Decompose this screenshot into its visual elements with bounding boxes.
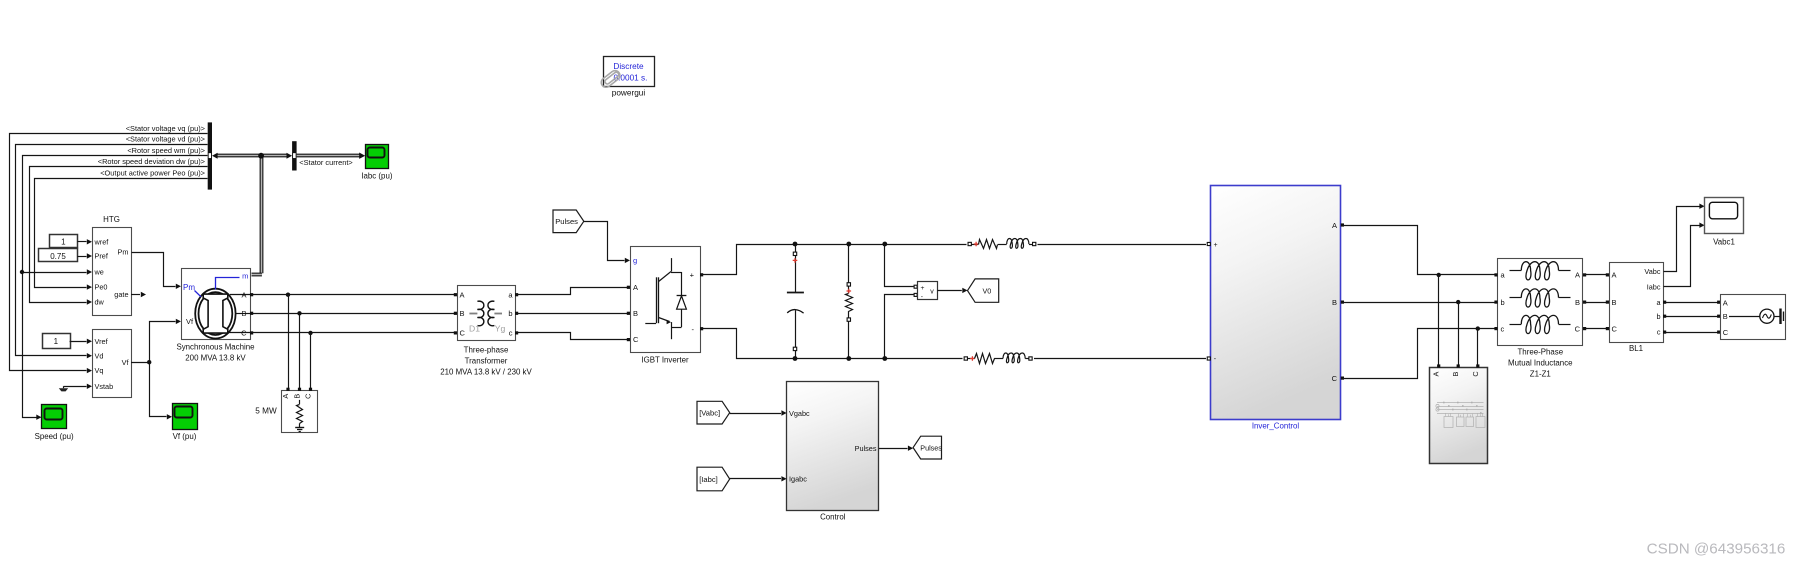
svg-text:Vq: Vq xyxy=(95,366,104,375)
svg-text:powergui: powergui xyxy=(612,89,646,98)
svg-text:<Rotor speed wm (pu)>: <Rotor speed wm (pu)> xyxy=(127,146,205,155)
svg-text:C: C xyxy=(1332,374,1338,383)
svg-text:[Iabc]: [Iabc] xyxy=(699,475,718,484)
svg-text:200 MVA 13.8 kV: 200 MVA 13.8 kV xyxy=(185,354,246,363)
svg-text:Pulses: Pulses xyxy=(555,217,578,226)
svg-text:b: b xyxy=(1656,312,1660,321)
svg-text:BL1: BL1 xyxy=(1629,344,1643,353)
svg-text:B: B xyxy=(1612,298,1617,307)
svg-text:Speed (pu): Speed (pu) xyxy=(35,432,74,441)
svg-text:wref: wref xyxy=(94,237,110,246)
svg-text:Mutual Inductance: Mutual Inductance xyxy=(1508,358,1573,367)
svg-text:c: c xyxy=(1657,328,1661,337)
svg-text:Inver_Control: Inver_Control xyxy=(1252,422,1300,431)
svg-text:Transformer: Transformer xyxy=(465,356,508,365)
svg-text:Vf (pu): Vf (pu) xyxy=(173,432,197,441)
svg-text:A: A xyxy=(241,290,246,299)
svg-text:g: g xyxy=(633,256,637,265)
svg-text:HTG: HTG xyxy=(103,215,120,224)
svg-text:210 MVA 13.8 kV / 230 kV: 210 MVA 13.8 kV / 230 kV xyxy=(440,367,532,376)
svg-text:Three-Phase: Three-Phase xyxy=(1517,347,1563,356)
svg-text:Pulses: Pulses xyxy=(855,444,877,453)
svg-text:Control: Control xyxy=(820,512,846,521)
svg-text:Vgabc: Vgabc xyxy=(789,409,810,418)
svg-text:+: + xyxy=(921,285,925,292)
svg-text:<Output active power Peo (pu: <Output active power Peo (pu)> xyxy=(100,169,205,178)
svg-text:Vf: Vf xyxy=(122,358,130,367)
svg-text:<Stator voltage vq (pu)>: <Stator voltage vq (pu)> xyxy=(126,124,205,133)
svg-text:B: B xyxy=(1451,371,1460,376)
svg-text:B: B xyxy=(1332,298,1337,307)
svg-text:0.75: 0.75 xyxy=(50,252,66,261)
svg-text:Vd: Vd xyxy=(95,351,104,360)
svg-text:D1: D1 xyxy=(469,324,480,334)
svg-text:Vstab: Vstab xyxy=(95,382,114,391)
svg-text:Igabc: Igabc xyxy=(789,474,807,483)
svg-text:Iabc: Iabc xyxy=(1647,282,1661,291)
svg-text:A: A xyxy=(633,283,638,292)
svg-text:b: b xyxy=(1501,298,1505,307)
svg-text:v: v xyxy=(930,289,934,296)
svg-text:CSDN @643956316: CSDN @643956316 xyxy=(1647,541,1786,558)
svg-text:C: C xyxy=(633,335,639,344)
svg-text:B: B xyxy=(293,394,302,399)
svg-text:Vf: Vf xyxy=(186,317,194,326)
svg-text:Vabc: Vabc xyxy=(1644,267,1660,276)
svg-text:Iabc (pu): Iabc (pu) xyxy=(361,171,393,180)
svg-text:C: C xyxy=(1471,371,1480,376)
svg-text:B: B xyxy=(1575,298,1580,307)
svg-text:Pm: Pm xyxy=(183,283,195,292)
svg-text:<Stator current>: <Stator current> xyxy=(299,158,352,167)
svg-text:C: C xyxy=(460,329,466,338)
svg-text:+: + xyxy=(690,270,695,279)
svg-text:1: 1 xyxy=(54,337,59,346)
svg-text:Vref: Vref xyxy=(95,337,109,346)
svg-text:C: C xyxy=(1612,324,1618,333)
svg-text:A: A xyxy=(1432,371,1441,376)
svg-text:B: B xyxy=(241,309,246,318)
svg-text:+: + xyxy=(1214,242,1218,249)
svg-text:Z1-Z1: Z1-Z1 xyxy=(1530,369,1551,378)
svg-text:C: C xyxy=(1575,324,1581,333)
svg-text:Synchronous Machine: Synchronous Machine xyxy=(176,343,255,352)
svg-text:C: C xyxy=(304,394,313,399)
svg-text:Pref: Pref xyxy=(95,252,109,261)
svg-text:-: - xyxy=(921,293,923,300)
svg-text:gate: gate xyxy=(114,290,128,299)
svg-text:C: C xyxy=(1723,328,1729,337)
svg-text:<Rotor speed deviation dw (pu: <Rotor speed deviation dw (pu)> xyxy=(98,157,205,166)
svg-text:we: we xyxy=(94,268,104,277)
svg-text:B: B xyxy=(633,309,638,318)
svg-text:[Vabc]: [Vabc] xyxy=(699,408,720,417)
svg-text:A: A xyxy=(1612,271,1617,280)
svg-text:Pe0: Pe0 xyxy=(95,283,108,292)
svg-text:Pulses: Pulses xyxy=(920,443,942,452)
svg-text:IGBT Inverter: IGBT Inverter xyxy=(641,356,689,365)
svg-text:<Stator voltage vd (pu)>: <Stator voltage vd (pu)> xyxy=(126,135,205,144)
svg-text:Yg: Yg xyxy=(495,324,506,334)
svg-text:V0: V0 xyxy=(983,286,992,295)
svg-text:m: m xyxy=(242,272,248,281)
svg-text:Pm: Pm xyxy=(118,248,129,257)
svg-text:1: 1 xyxy=(61,237,66,246)
svg-text:A: A xyxy=(1723,298,1728,307)
svg-text:B: B xyxy=(460,309,465,318)
svg-text:c: c xyxy=(1501,324,1505,333)
svg-text:5 MW: 5 MW xyxy=(255,407,277,416)
svg-text:C: C xyxy=(241,329,247,338)
svg-text:A: A xyxy=(1332,221,1337,230)
svg-text:A: A xyxy=(1575,271,1580,280)
svg-text:A: A xyxy=(281,394,290,399)
svg-text:Three-phase: Three-phase xyxy=(464,345,509,354)
svg-text:Vabc1: Vabc1 xyxy=(1713,237,1735,246)
svg-text:b: b xyxy=(508,309,512,318)
svg-text:B: B xyxy=(1723,312,1728,321)
svg-text:dw: dw xyxy=(95,298,105,307)
svg-text:A: A xyxy=(460,290,465,299)
svg-text:c: c xyxy=(509,329,513,338)
svg-text:Discrete: Discrete xyxy=(613,62,644,71)
